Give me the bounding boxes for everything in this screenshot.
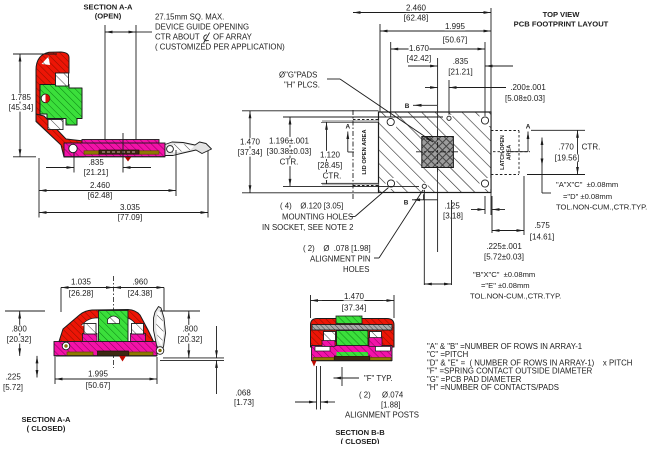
svg-text:B: B [405,103,410,110]
svg-text:( CLOSED): ( CLOSED) [341,437,380,444]
svg-text:1.995: 1.995 [445,22,466,31]
svg-text:MOUNTING HOLES: MOUNTING HOLES [282,213,353,222]
svg-text:CTR.: CTR. [280,158,299,167]
svg-text:[20.32]: [20.32] [7,335,31,344]
svg-text:"H" PLCS.: "H" PLCS. [284,81,320,90]
svg-text:LID OPEN AREA: LID OPEN AREA [362,129,368,175]
svg-text:TOL.NON-CUM.,CTR.TYP.: TOL.NON-CUM.,CTR.TYP. [556,203,647,212]
svg-text:27.15mm SQ. MAX.: 27.15mm SQ. MAX. [155,13,224,22]
svg-text:[24.38]: [24.38] [128,289,152,298]
svg-text:[42.42]: [42.42] [407,54,431,63]
svg-text:"F" TYP.: "F" TYP. [364,374,393,383]
svg-text:="E" ±0.08mm: ="E" ±0.08mm [481,281,530,290]
svg-text:[21.21]: [21.21] [448,68,472,77]
svg-text:AREA: AREA [507,145,513,160]
svg-text:.575: .575 [534,221,550,230]
svg-text:[30.38±0.03]: [30.38±0.03] [267,147,311,156]
svg-text:1.670: 1.670 [409,44,430,53]
svg-text:TOP VIEW: TOP VIEW [543,10,581,19]
svg-text:OF ARRAY: OF ARRAY [213,33,253,42]
svg-text:IN SOCKET, SEE NOTE 2: IN SOCKET, SEE NOTE 2 [262,223,353,232]
svg-text:.960: .960 [132,278,148,287]
svg-text:[50.67]: [50.67] [86,381,110,390]
svg-text:LATCH OPEN: LATCH OPEN [500,135,506,170]
svg-text:[77.09]: [77.09] [118,213,142,222]
svg-text:A: A [345,124,350,131]
svg-text:[21.21]: [21.21] [84,168,108,177]
svg-text:.770: .770 [558,143,574,152]
svg-text:[1.73]: [1.73] [234,398,254,407]
svg-text:[45.34]: [45.34] [9,103,33,112]
svg-text:HOLES: HOLES [343,265,369,274]
svg-text:.800: .800 [11,325,27,334]
svg-text:DEVICE GUIDE OPENING: DEVICE GUIDE OPENING [155,23,249,32]
svg-text:.225±.001: .225±.001 [486,242,522,251]
svg-text:.835: .835 [88,158,104,167]
svg-text:"H" =NUMBER OF CONTACTS/PADS: "H" =NUMBER OF CONTACTS/PADS [427,383,559,392]
svg-text:( CUSTOMIZED PER APPLICATION): ( CUSTOMIZED PER APPLICATION) [155,43,285,52]
svg-text:"B"X"C" ±0.08mm: "B"X"C" ±0.08mm [473,270,535,279]
svg-text:.125: .125 [444,202,460,211]
svg-text:Ø.074: Ø.074 [382,391,404,400]
svg-text:[20.32]: [20.32] [178,335,202,344]
svg-text:SECTION A-A: SECTION A-A [83,3,133,12]
svg-text:1.470: 1.470 [240,138,261,147]
svg-text:( 2): ( 2) [359,391,371,400]
svg-text:1.995: 1.995 [88,370,109,379]
svg-text:.200±.001: .200±.001 [510,83,546,92]
svg-text:A: A [526,124,531,131]
svg-text:.225: .225 [5,373,21,382]
svg-text:[3.18]: [3.18] [443,212,463,221]
svg-text:1.470: 1.470 [344,292,365,301]
svg-text:[5.72±0.03]: [5.72±0.03] [484,253,524,262]
svg-text:TOL.NON-CUM.,CTR.TYP.: TOL.NON-CUM.,CTR.TYP. [470,292,561,301]
svg-text:="D" ±0.08mm: ="D" ±0.08mm [563,192,612,201]
svg-text:2.460: 2.460 [90,181,111,190]
svg-text:.068: .068 [235,389,251,398]
svg-text:1.035: 1.035 [71,278,92,287]
svg-text:[62.48]: [62.48] [88,191,112,200]
svg-text:B: B [404,200,409,207]
svg-text:1.120: 1.120 [320,151,341,160]
svg-text:[14.61]: [14.61] [530,233,554,242]
svg-text:[50.67]: [50.67] [443,36,467,45]
svg-text:[5.72]: [5.72] [3,383,23,392]
svg-text:[28.45]: [28.45] [318,161,342,170]
svg-text:3.035: 3.035 [120,203,141,212]
svg-text:( 4) Ø.120 [3.05]: ( 4) Ø.120 [3.05] [280,202,343,211]
svg-text:( CLOSED): ( CLOSED) [27,424,66,433]
svg-text:1.785: 1.785 [11,93,32,102]
svg-text:SECTION A-A: SECTION A-A [21,415,71,424]
svg-text:[1.88]: [1.88] [381,401,401,410]
svg-text:ALIGNMENT PIN: ALIGNMENT PIN [310,255,371,264]
svg-text:SECTION B-B: SECTION B-B [335,428,385,437]
svg-text:CTR.: CTR. [323,172,342,181]
svg-text:[62.48]: [62.48] [404,14,428,23]
svg-text:[5.08±0.03]: [5.08±0.03] [505,94,545,103]
svg-text:Ø"G"PADS: Ø"G"PADS [279,71,317,80]
svg-text:PCB FOOTPRINT LAYOUT: PCB FOOTPRINT LAYOUT [514,20,609,29]
svg-text:CTR.: CTR. [582,143,601,152]
svg-text:[37.34]: [37.34] [342,304,366,313]
svg-text:(OPEN): (OPEN) [95,12,122,21]
svg-text:[19.56]: [19.56] [555,154,579,163]
svg-text:CTR ABOUT: CTR ABOUT [155,33,200,42]
svg-text:.835: .835 [453,57,469,66]
svg-text:.800: .800 [182,325,198,334]
svg-text:2.460: 2.460 [406,4,427,13]
svg-text:"A"X"C" ±0.08mm: "A"X"C" ±0.08mm [556,180,618,189]
svg-text:ALIGNMENT POSTS: ALIGNMENT POSTS [345,411,419,420]
svg-text:1.196±.001: 1.196±.001 [269,137,310,146]
svg-text:( 2) Ø .078 [1.98]: ( 2) Ø .078 [1.98] [303,244,371,253]
svg-text:[37.34]: [37.34] [238,148,262,157]
svg-text:[26.28]: [26.28] [69,289,93,298]
